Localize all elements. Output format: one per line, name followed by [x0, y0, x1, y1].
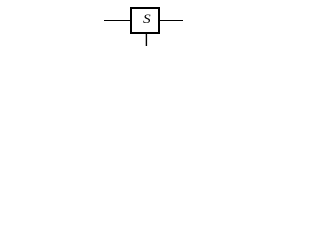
S-parameter block U1: box outline — [131, 8, 159, 33]
wire: reference pin stub — [145, 33, 147, 46]
svg-text:S: S — [143, 12, 151, 27]
wire: right port lead — [159, 20, 183, 22]
wire: left port lead — [104, 20, 132, 22]
